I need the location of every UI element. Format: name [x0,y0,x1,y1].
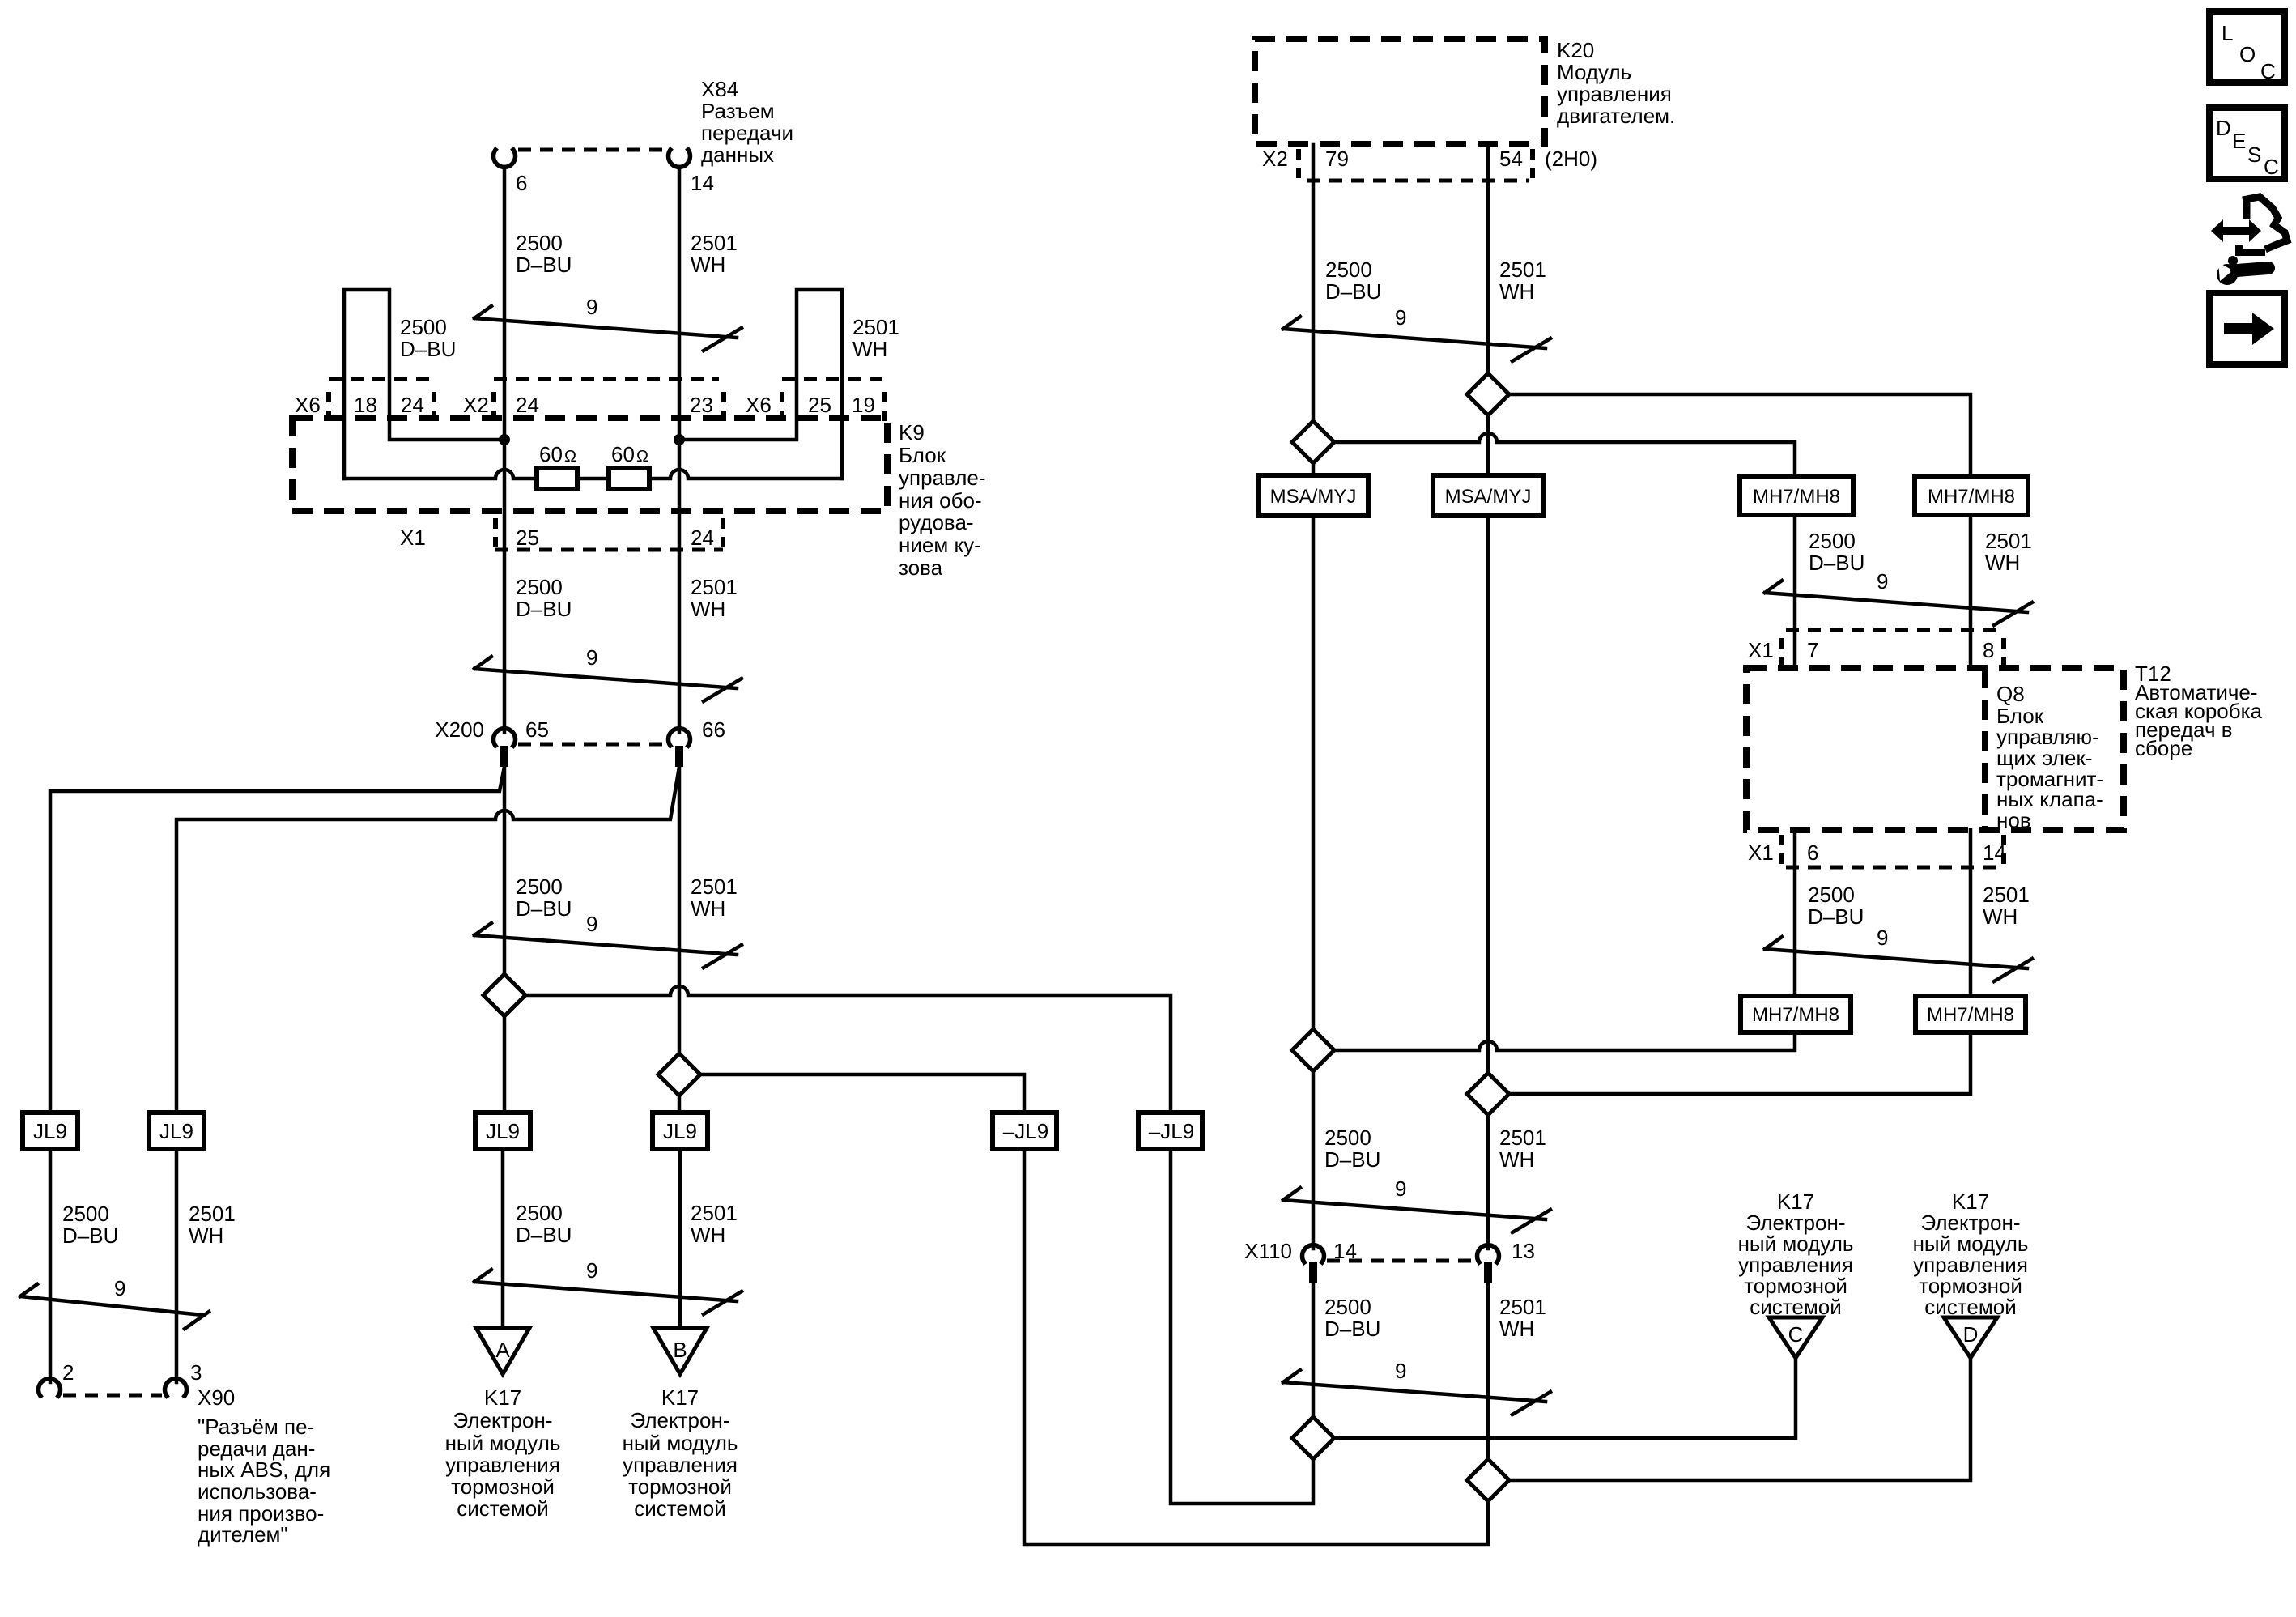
wire 2500 diamond to MSA/MYJ box [1312,463,1316,475]
svg-text:25: 25 [516,526,539,550]
svg-text:X1: X1 [1748,638,1774,662]
option box -JL9 (left) [993,1113,1057,1149]
svg-text:X110: X110 [1244,1239,1292,1263]
wire 2501 through hop down to MSA/MYJ box [1486,415,1490,475]
svg-text:WH: WH [1499,279,1534,304]
wire label 2500 D-BU (below K20) [1325,257,1381,304]
wire label 2500 D-BU (below K9) [516,575,572,621]
label K20 Модуль управления двигателем [1557,38,1675,128]
wire from -JL9 right down and right to diamond under X110 pin 14 [1171,1149,1313,1504]
svg-text:7: 7 [1807,638,1818,662]
wire from 2501 diamond to -JL9 branch [700,1074,1024,1112]
wire between terminating resistors [577,477,609,481]
splice pack diamond on 2501 [658,1053,700,1096]
off-page triangle B [653,1328,707,1374]
svg-text:X1: X1 [1748,840,1774,865]
svg-text:9: 9 [1395,305,1406,330]
svg-text:24: 24 [691,526,714,550]
svg-text:сборе: сборе [2135,736,2192,760]
wire label 2501 WH (above T12) [1985,529,2032,575]
svg-text:X90: X90 [198,1385,235,1410]
svg-text:передачи: передачи [701,121,793,145]
wire label 2501 WH (below X200) [691,874,738,921]
svg-text:D–BU: D–BU [1808,904,1864,929]
wire 2501 from diamond to JL9 option box [678,1096,682,1113]
wire 2501 WH from X200 pin 66 down to splice diamond [678,767,682,1053]
svg-text:D–BU: D–BU [1325,279,1381,304]
svg-text:18: 18 [354,393,377,417]
wire from 2500 diamond to -JL9 branch (hop over 2501) [525,986,1171,1112]
svg-text:A: A [495,1338,510,1362]
wire from 2501 diamond right to MH7/MH8 column (right) [1509,394,1971,477]
svg-text:WH: WH [1983,904,2018,929]
label Q8 Блок управляющих электромагнитных клапанов [1996,682,2103,832]
svg-text:2501: 2501 [1499,1295,1546,1319]
svg-text:WH: WH [852,337,887,361]
label X90 Разъём передачи данных ABS [198,1385,330,1547]
wire label 2501 WH (above triangle B) [691,1201,738,1247]
wire label 2501 WH (below T12) [1983,883,2030,929]
twisted pair note 9 (above X200) [474,645,742,701]
off-page triangle C [1769,1317,1822,1358]
svg-text:2500: 2500 [1808,883,1855,907]
option box MH7/MH8 (upper left) [1740,477,1853,515]
svg-text:9: 9 [1877,569,1888,594]
svg-text:2501: 2501 [1985,529,2032,553]
svg-text:Q8: Q8 [1996,682,2025,706]
wire 2500 from diamond to JL9 option box [503,1016,507,1113]
svg-text:управления: управления [445,1453,560,1477]
component Q8 dashed box (solenoid valve body) [1982,668,1988,830]
svg-text:2501: 2501 [189,1202,236,1226]
svg-text:2501: 2501 [691,1201,738,1225]
svg-text:ния обо-: ния обо- [899,488,982,513]
wire 2500 D-BU from K20 pin 79 down to diamond [1312,144,1316,421]
module K9 dashed box (body control module) [292,418,887,511]
wire 2501 WH from JL9 to triangle B [175,1149,179,1382]
twisted pair note 9 (below X110) [1283,1359,1550,1415]
svg-text:Электрон-: Электрон- [631,1408,730,1432]
svg-text:2501: 2501 [1499,257,1546,282]
label T12 Автоматическая коробка передач в сборе [2135,662,2263,760]
connector X90 (ABS data link) [39,1379,187,1396]
svg-text:66: 66 [702,717,725,742]
svg-text:S: S [2247,143,2261,167]
svg-text:2500: 2500 [1325,257,1372,282]
svg-text:зова: зова [899,555,943,580]
connector X2 row of K20 [1299,149,1533,181]
svg-text:нов: нов [1996,808,2031,832]
svg-text:60: 60 [539,442,563,466]
sidebar icon forward arrow box [2209,293,2285,364]
wire label 2500 D-BU (below X110) [1324,1295,1380,1341]
svg-text:Ω: Ω [564,448,576,466]
svg-text:2501: 2501 [1983,883,2030,907]
twisted pair note 9 (above triangles A/B) [474,1258,742,1314]
svg-text:WH: WH [1499,1317,1534,1341]
svg-text:2500: 2500 [1324,1126,1371,1150]
svg-text:9: 9 [586,912,597,936]
wire 2500 from T12 X1 pin 6 down to lower MH7/MH8 [1793,830,1797,996]
svg-text:2500: 2500 [1324,1295,1371,1319]
splice junction dot on 2500 inside K9 [499,434,510,445]
wire 2500 D-BU from X200 pin 65 down to splice diamond [503,767,507,974]
svg-text:2501: 2501 [1499,1126,1546,1150]
sidebar icon DESC box [2209,108,2285,179]
off-page triangle D [1944,1317,1997,1358]
svg-text:14: 14 [1983,840,2006,865]
svg-text:D–BU: D–BU [516,896,572,921]
svg-text:–JL9: –JL9 [1003,1119,1048,1143]
svg-text:X2: X2 [1262,147,1288,171]
splice pack diamond on 2501 (mid) [1467,1073,1509,1115]
svg-text:WH: WH [1985,551,2020,575]
twisted pair note 9 (below X84) [474,295,742,351]
wire branch from X200 pin 65 to ABS data link (left) [50,767,504,1113]
wire label 2501 WH (below X110) [1499,1295,1546,1341]
wire branch from X200 pin 66 to ABS data link (hop over 2500) [176,767,679,1113]
wire from -JL9 left down and right to diamond under X110 pin 13 [1024,1149,1488,1544]
label X84 Разъем передачи данных [701,77,793,167]
svg-text:D–BU: D–BU [516,1223,572,1247]
svg-text:9: 9 [114,1276,125,1300]
splice pack diamond on 2501 (upper) [1467,373,1509,415]
wire X6 pin 18 to terminating resistor (hop over 2500) [344,470,537,479]
splice pack diamond on 2500 (upper) [1292,421,1334,463]
svg-text:O: O [2239,42,2256,66]
svg-text:9: 9 [1395,1359,1406,1383]
option box JL9 (far left, 2500) [23,1113,78,1149]
svg-text:WH: WH [189,1223,223,1248]
svg-text:JL9: JL9 [486,1119,520,1143]
sidebar icon double arrow with hand and wrench [2211,197,2287,285]
svg-text:14: 14 [1333,1239,1357,1263]
svg-text:Электрон-: Электрон- [453,1408,553,1432]
svg-text:9: 9 [586,295,597,319]
splice pack diamond on 2501 (bottom) [1467,1459,1509,1501]
svg-text:2500: 2500 [516,874,563,899]
svg-text:ный модуль: ный модуль [445,1431,561,1455]
svg-text:3: 3 [190,1360,202,1385]
label K17 ABS module (under triangle A) [445,1385,561,1521]
svg-text:2501: 2501 [852,315,899,339]
svg-text:9: 9 [586,1258,597,1283]
wire from bottom 2501 diamond right to triangle D column [1509,1358,1971,1480]
wire loop X6 pin 25 to internal splice (K9 right) [679,290,842,479]
svg-text:L: L [2222,21,2233,45]
wire label 2501 WH (far left) [189,1202,236,1248]
connector X1 row of T12 (pins 6/14) [1782,835,2004,867]
splice pack diamond on 2500 [483,974,525,1016]
svg-text:D: D [2216,116,2231,140]
svg-text:–JL9: –JL9 [1149,1119,1194,1143]
svg-text:WH: WH [691,253,725,277]
wire 2501 from MSA/MYJ down to lower diamond [1486,516,1490,1073]
svg-text:Ω: Ω [636,448,648,466]
svg-text:X1: X1 [400,526,426,550]
svg-text:WH: WH [691,597,725,621]
wire label 2500 D-BU (above X110) [1324,1126,1380,1172]
svg-text:54: 54 [1499,147,1523,171]
svg-text:JL9: JL9 [663,1119,697,1143]
svg-text:D–BU: D–BU [62,1223,118,1248]
wire 2501 from T12 X1 pin 14 down to lower MH7/MH8 [1969,830,1973,996]
module K20 dashed box (engine control module) [1255,39,1545,144]
wire label 2500 D-BU (above T12) [1809,529,1864,575]
connector X1 row on K9 bottom [495,518,723,551]
svg-text:2500: 2500 [400,315,447,339]
svg-text:D–BU: D–BU [516,253,572,277]
svg-text:X84: X84 [701,77,738,101]
label K9 Блок управления оборудованием кузова [899,420,986,580]
svg-text:2500: 2500 [516,575,563,599]
svg-text:9: 9 [1877,926,1888,950]
svg-text:JL9: JL9 [159,1119,193,1143]
svg-text:тормозной: тормозной [451,1474,555,1499]
svg-text:ных ABS, для: ных ABS, для [198,1457,330,1482]
svg-text:WH: WH [1499,1147,1534,1172]
svg-text:JL9: JL9 [33,1119,67,1143]
svg-text:25: 25 [808,393,831,417]
connector row X6/X2 on K9 top edge [329,379,887,424]
twisted pair note 9 (below K20) [1283,305,1550,361]
wire label 2501 WH (at K9 loop) [852,315,899,361]
svg-text:управле-: управле- [899,466,986,490]
svg-text:2501: 2501 [691,874,738,899]
resistor 60 Ohm #1 [537,442,577,489]
svg-text:D: D [1963,1322,1979,1347]
wire 2500 D-BU from JL9 to triangle A [49,1149,53,1382]
twisted pair note 9 (far left pair) [20,1276,209,1329]
svg-text:79: 79 [1325,147,1349,171]
svg-text:нием ку-: нием ку- [899,533,981,557]
sidebar icon LOC box [2209,11,2285,83]
svg-text:24: 24 [401,393,424,417]
wire X6 pin 19 to terminating resistor (hop over 2501) [649,470,842,479]
svg-text:данных: данных [701,143,774,167]
svg-text:K17: K17 [484,1385,521,1410]
svg-text:MH7/MH8: MH7/MH8 [1753,486,1840,508]
svg-text:24: 24 [516,393,539,417]
svg-text:2500: 2500 [1809,529,1856,553]
connector X110 (inline) [1303,1245,1499,1283]
svg-text:2500: 2500 [62,1202,109,1226]
svg-text:D–BU: D–BU [516,597,572,621]
wire from 2500 mid diamond to lower MH7/MH8 (hop over 2501) [1334,1032,1795,1050]
wire label 2500 D-BU (below X84) [516,231,572,277]
svg-text:тормозной: тормозной [628,1474,732,1499]
svg-text:2500: 2500 [516,1201,563,1225]
wire 2500 from X110 pin 14 down to lower diamond [1312,1283,1316,1417]
svg-text:60: 60 [611,442,635,466]
svg-text:(2H0): (2H0) [1545,147,1597,171]
wire from 2501 mid diamond to lower MH7/MH8 (right) [1509,1032,1971,1094]
twisted pair note 9 (below T12) [1765,926,2032,981]
svg-text:B: B [673,1338,687,1362]
off-page triangle A [476,1328,529,1374]
svg-text:X200: X200 [435,717,484,742]
svg-text:K17: K17 [661,1385,699,1410]
wire 2501 from X110 pin 13 down to lower diamond [1486,1283,1490,1459]
splice junction dot on 2501 inside K9 [674,434,685,445]
option box MSA/MYJ (on 2500) [1258,475,1368,516]
svg-text:K9: K9 [899,420,925,445]
wire label 2501 WH (above X110) [1499,1126,1546,1172]
wire label 2501 WH (below X84) [691,231,738,277]
wire from bottom 2500 diamond right to triangle C column [1334,1358,1796,1438]
wire 2500 from JL9 to triangle A (center) [501,1149,505,1328]
svg-text:управления: управления [623,1453,738,1477]
svg-text:системой: системой [1924,1295,2016,1319]
svg-text:K20: K20 [1557,38,1594,62]
svg-text:ный модуль: ный модуль [623,1431,738,1455]
option box MH7/MH8 (lower right) [1915,996,2026,1032]
svg-text:D–BU: D–BU [400,337,456,361]
wire 2500 from MH7/MH8 down to T12 X1 pin 7 [1793,515,1797,666]
svg-text:C: C [2264,155,2279,179]
twisted pair note 9 (above splice diamonds) [474,912,742,968]
svg-text:2: 2 [62,1360,74,1385]
wire loop X6 pin 24 to internal splice (K9 left) [344,290,504,479]
wire label 2501 WH (below K20) [1499,257,1546,304]
option box JL9 (on 2500) [475,1113,530,1149]
connector X200 (inline) [494,729,691,767]
wire 2501 WH from K20 pin 54 down to diamond [1486,144,1490,373]
svg-text:рудова-: рудова- [899,510,974,534]
option box MH7/MH8 (upper right) [1915,477,2028,515]
twisted pair note 9 (above T12) [1765,569,2032,625]
wire from 2500 diamond right to MH7/MH8 column (left, hop over 2501) [1334,433,1795,477]
svg-text:системой: системой [634,1496,725,1521]
twisted pair note 9 (above X110) [1283,1177,1550,1232]
resistor 60 Ohm #2 [609,442,649,489]
svg-text:2500: 2500 [516,231,563,255]
svg-text:WH: WH [691,1223,725,1247]
wire 2501 from MH7/MH8 down to T12 X1 pin 8 [1969,515,1973,666]
option box JL9 (far left, 2501) [149,1113,204,1149]
svg-text:Модуль: Модуль [1557,60,1631,84]
svg-text:D–BU: D–BU [1809,551,1864,575]
svg-text:6: 6 [516,171,527,195]
svg-text:MH7/MH8: MH7/MH8 [1752,1004,1839,1026]
svg-text:WH: WH [691,896,725,921]
svg-text:управления: управления [1557,82,1672,106]
svg-text:Разъем: Разъем [701,99,775,123]
svg-text:"Разъём пе-: "Разъём пе- [198,1415,314,1439]
label K17 brake module (above triangle C) [1738,1189,1854,1319]
wire label 2500 D-BU (above triangle A) [516,1201,572,1247]
svg-text:Блок: Блок [899,443,946,467]
svg-text:C: C [2260,59,2276,83]
wire 2500 from MSA/MYJ down to lower diamond [1312,516,1316,1029]
option box MH7/MH8 (lower left) [1741,996,1851,1032]
connector X84 (data link connector) [494,150,691,167]
wire label 2500 D-BU (at K9 loop) [400,315,456,361]
assembly T12 dashed box (automatic transmission) [1746,668,2124,830]
svg-text:MH7/MH8: MH7/MH8 [1927,1004,2014,1026]
svg-text:14: 14 [691,171,714,195]
wire 2501 from JL9 to triangle B (center) [678,1149,682,1328]
wire label 2500 D-BU (below T12) [1808,883,1864,929]
svg-text:19: 19 [852,393,875,417]
svg-text:X6: X6 [295,393,321,417]
wire 2500 D-BU from X84 pin 6 down to X200 [503,167,507,732]
splice pack diamond on 2500 (mid) [1292,1029,1334,1071]
svg-text:8: 8 [1983,638,1994,662]
svg-text:системой: системой [457,1496,548,1521]
svg-text:2501: 2501 [691,231,738,255]
svg-text:13: 13 [1512,1239,1535,1263]
option box -JL9 (right) [1138,1113,1202,1149]
wire 2500 from mid diamond down to X110 [1312,1071,1316,1249]
svg-text:MH7/MH8: MH7/MH8 [1928,486,2015,508]
option box JL9 (on 2501) [653,1113,708,1149]
label K17 brake module (above triangle D) [1913,1189,2029,1319]
svg-text:D–BU: D–BU [1324,1317,1380,1341]
svg-text:MSA/MYJ: MSA/MYJ [1270,486,1357,508]
svg-text:использова-: использова- [198,1479,317,1504]
wire 2501 from mid diamond down to X110 [1486,1115,1490,1249]
svg-text:23: 23 [690,393,713,417]
option box MSA/MYJ (on 2501) [1433,475,1543,516]
wire 2501 WH from X84 pin 14 down to X200 [678,167,682,732]
svg-text:E: E [2232,129,2246,153]
svg-text:9: 9 [586,645,597,670]
wire label 2501 WH (below K9) [691,575,738,621]
wire label 2500 D-BU (below X200) [516,874,572,921]
svg-text:C: C [1788,1322,1804,1347]
svg-text:65: 65 [525,717,549,742]
svg-text:X6: X6 [746,393,772,417]
svg-text:D–BU: D–BU [1324,1147,1380,1172]
splice pack diamond on 2500 (bottom) [1292,1417,1334,1459]
svg-text:MSA/MYJ: MSA/MYJ [1445,486,1532,508]
svg-text:9: 9 [1395,1177,1406,1201]
svg-text:дителем": дителем" [198,1522,288,1547]
wire label 2500 D-BU (far left) [62,1202,118,1248]
label K17 ABS module (under triangle B) [623,1385,738,1521]
svg-text:2501: 2501 [691,575,738,599]
svg-text:системой: системой [1750,1295,1841,1319]
svg-text:6: 6 [1807,840,1818,865]
svg-text:двигателем.: двигателем. [1557,104,1675,128]
connector X1 row of T12 (pins 7/8) [1782,630,2004,670]
svg-text:X2: X2 [463,393,489,417]
